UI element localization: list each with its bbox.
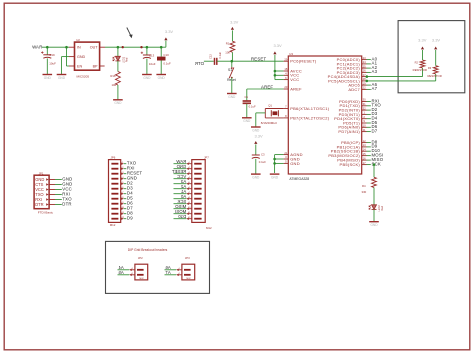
power symbol 3.3V above R1 (230, 20, 239, 42)
wire GND pin5 (275, 162, 284, 164)
svg-text:JP2: JP2 (138, 256, 143, 260)
wire RESET net to ATmega (232, 60, 284, 62)
svg-text:24: 24 (363, 60, 366, 64)
svg-text:A7: A7 (165, 270, 171, 275)
svg-text:25: 25 (363, 64, 366, 68)
voltage regulator U2 MIC5205 (69, 38, 105, 79)
wire and net label VCC at JP1 pin 3 (55, 186, 72, 191)
svg-text:31: 31 (363, 102, 366, 106)
node junction GND pin3 (273, 158, 276, 161)
wire and net label RXI at JP6 pin 2 (124, 166, 135, 171)
wire EN tie to rail (67, 47, 70, 66)
wire and net label A7 (mirrored) at JP3 pin 2 (165, 270, 177, 275)
ground below C2 (242, 118, 252, 123)
wire and net label A3 (367, 69, 378, 74)
svg-text:GND: GND (290, 161, 300, 166)
wire and net label D8 at JP6 pin 11 (124, 211, 134, 216)
svg-text:ADC7: ADC7 (348, 87, 360, 92)
svg-text:GND: GND (58, 76, 66, 80)
svg-text:RESISTOR: RESISTOR (427, 74, 441, 78)
wire and net label TXO at JP6 pin 1 (124, 161, 137, 166)
svg-text:GND: GND (77, 55, 86, 59)
svg-text:IN: IN (77, 46, 81, 50)
svg-text:21: 21 (284, 151, 287, 155)
svg-text:FTDI Basic: FTDI Basic (38, 211, 54, 215)
svg-text:18: 18 (284, 67, 287, 71)
wire and net label D9 at JP6 pin 12 (124, 216, 134, 221)
svg-text:32: 32 (363, 106, 366, 110)
svg-text:U2: U2 (76, 38, 80, 42)
ground below C10 (156, 75, 166, 80)
annotation box DIP Grid Breakout headers (106, 241, 210, 293)
capacitor C3 0.1uF decoupling (252, 152, 266, 174)
svg-text:D9: D9 (127, 216, 133, 221)
wire and net label D2 (367, 107, 378, 112)
wire and net label D5 at JP6 pin 8 (124, 196, 134, 201)
connector JP1 FTDI Basic (34, 171, 55, 214)
svg-text:GND: GND (228, 95, 236, 99)
svg-text:D10: D10 (178, 214, 186, 219)
svg-text:PB7(XTAL2TOSC2): PB7(XTAL2TOSC2) (290, 115, 330, 120)
svg-text:8/16/20MHz: 8/16/20MHz (261, 121, 278, 125)
node junction RESET (231, 60, 234, 63)
ground below C3 (251, 174, 261, 179)
wire and net label TXO at JP1 pin 5 (55, 196, 72, 201)
wire and net label D4 at JP6 pin 7 (124, 191, 134, 196)
svg-text:10uF: 10uF (149, 62, 156, 66)
wire and net label GND at JP6 pin 4 (124, 176, 137, 181)
wire AREF to ATmega (247, 88, 284, 90)
capacitor C19 10uF (41, 51, 56, 74)
switch S1 reset button (227, 61, 236, 93)
svg-text:GND: GND (271, 176, 279, 180)
svg-text:JP6: JP6 (111, 156, 116, 160)
svg-text:10: 10 (363, 124, 366, 128)
svg-text:3.3V: 3.3V (230, 20, 239, 25)
ground below ATmega GND pins (270, 174, 280, 179)
svg-text:RAW: RAW (31, 45, 42, 50)
node red dot on rail 2 (140, 46, 142, 48)
wire VCC pin4 (275, 74, 284, 76)
wire and net label D10 (mirrored) at JP7 pin 12 (174, 214, 187, 219)
wire and net label MOSI (367, 152, 384, 157)
svg-text:3.3V: 3.3V (165, 29, 174, 34)
wire and net label D5 (367, 120, 378, 125)
svg-text:GND: GND (252, 128, 260, 132)
svg-text:ATMEGA328: ATMEGA328 (289, 177, 309, 181)
svg-text:PC6(RESET): PC6(RESET) (290, 59, 317, 64)
wire and net label A2 (367, 65, 378, 70)
capacitor C10 0.1uF (157, 53, 171, 74)
wire and net label GND at JP1 pin 1 (55, 176, 72, 181)
net label RESET (251, 57, 267, 62)
LED LED1 red power indicator (113, 56, 129, 63)
wire and net label D6 at JP6 pin 9 (124, 201, 134, 206)
svg-text:Red: Red (381, 206, 384, 211)
wire and net label D7 (367, 128, 378, 133)
wire and net label A6 (367, 82, 378, 87)
wire and net label MISO (367, 157, 384, 162)
resistor R16 10k (110, 72, 120, 87)
wire C12 to RESET node (217, 60, 232, 62)
resistor R1 10k reset pullup (225, 41, 235, 61)
resistor R3 RESISTOR pullup SCL (427, 66, 441, 78)
svg-text:JP3: JP3 (185, 256, 190, 260)
wire U2 GND pin to ground (62, 57, 70, 75)
wire and net label A7 (367, 86, 378, 91)
capacitor C1 0.1uF on AREF (243, 95, 256, 118)
wire and net label D4 (367, 116, 378, 121)
svg-text:10k: 10k (111, 83, 116, 87)
wire LED2 to ground (373, 209, 375, 221)
node junction VCC (274, 74, 277, 77)
wire rail to C13 (146, 47, 148, 55)
annotation box I2C pullups (398, 21, 465, 93)
wire and net label VCC (mirrored) at JP7 pin 4 (174, 174, 187, 179)
svg-text:D7: D7 (372, 128, 378, 133)
svg-text:DTR: DTR (62, 201, 71, 206)
svg-text:0.1uF: 0.1uF (249, 105, 256, 109)
wire and net label A1 (367, 61, 378, 66)
svg-text:0.1uF: 0.1uF (218, 51, 222, 58)
wire resonator to ground (256, 113, 265, 127)
svg-text:3.3V: 3.3V (254, 133, 263, 138)
svg-text:Red: Red (126, 57, 129, 62)
svg-text:3.3V: 3.3V (418, 38, 427, 43)
svg-text:12: 12 (363, 139, 366, 143)
svg-text:10uF: 10uF (49, 62, 56, 66)
svg-text:GND: GND (114, 101, 122, 105)
svg-text:GND: GND (143, 76, 151, 80)
wire R4 to LED2 (373, 188, 375, 205)
capacitor C13 10uF (141, 52, 156, 75)
ground below R16 (113, 100, 123, 105)
svg-text:Q1: Q1 (268, 104, 272, 108)
svg-text:R2: R2 (415, 60, 419, 64)
svg-text:MIC5205: MIC5205 (77, 75, 90, 79)
ground below C13 (142, 75, 152, 80)
wire and net label TXO (367, 103, 382, 108)
connector JP3 breakout A6 A7 (176, 256, 194, 280)
wire and net label A1 (mirrored) at JP7 pin 7 (174, 189, 187, 194)
wire and net label A6 (mirrored) at JP3 pin 1 (165, 265, 177, 270)
svg-text:RESISTOR: RESISTOR (413, 68, 427, 72)
svg-text:GND: GND (243, 119, 251, 123)
ground below S1 (227, 94, 237, 99)
node junction AVCC (274, 70, 277, 73)
svg-text:JP7: JP7 (204, 156, 209, 160)
wire C19 to rail (46, 47, 48, 55)
svg-text:OUT: OUT (90, 46, 99, 50)
wire and net label D9 (367, 144, 378, 149)
annotation arrow (127, 28, 133, 39)
wire and net label D8 (367, 139, 378, 144)
wire and net label GND at JP1 pin 2 (55, 181, 72, 186)
svg-text:30: 30 (363, 98, 366, 102)
svg-text:C19: C19 (49, 53, 55, 57)
svg-text:M12: M12 (206, 226, 212, 230)
svg-text:GND: GND (44, 76, 52, 80)
resonator Q1 8/16/20MHz (261, 104, 284, 126)
svg-text:DIP Grid Breakout headers: DIP Grid Breakout headers (128, 248, 168, 252)
svg-text:DTR: DTR (195, 61, 204, 66)
svg-text:AREF: AREF (261, 85, 273, 90)
wire LED1 to R16 (117, 61, 119, 72)
wire and net label D3 at JP6 pin 6 (124, 186, 134, 191)
svg-text:RESET: RESET (251, 57, 267, 62)
svg-text:R1: R1 (226, 41, 230, 45)
wire and net label RAW (mirrored) at JP7 pin 1 (174, 159, 187, 164)
wire SCK to R4 (373, 165, 375, 178)
wire RAW input to regulator IN (42, 46, 69, 48)
svg-text:0.1uF: 0.1uF (259, 160, 266, 164)
wire SDA A4 to pullup R2 (366, 68, 423, 78)
power symbol 3.3V AVCC (273, 43, 282, 80)
wire rail to C10 (160, 47, 162, 56)
svg-text:A5: A5 (118, 270, 124, 275)
svg-text:330: 330 (362, 190, 367, 194)
svg-text:22: 22 (363, 86, 366, 90)
LED LED2 red SCK indicator (369, 205, 384, 212)
svg-text:3.3V: 3.3V (432, 38, 441, 43)
svg-text:R16: R16 (110, 74, 116, 78)
wire AREF to C2 (246, 89, 248, 100)
power symbol 3.3V above R3 (432, 38, 441, 66)
svg-text:U3: U3 (289, 52, 293, 56)
svg-text:C12: C12 (209, 54, 213, 59)
svg-text:PD7(AIN1): PD7(AIN1) (338, 129, 360, 134)
wire and net label A0 (367, 56, 378, 61)
wire GND pin3 (275, 158, 284, 160)
microcontroller U3 ATMEGA328 (284, 52, 367, 181)
svg-text:PB6(XTAL1TOSC1): PB6(XTAL1TOSC1) (290, 106, 330, 111)
wire and net label DTR at JP1 pin 6 (55, 201, 72, 206)
svg-text:20: 20 (284, 85, 287, 89)
node junction GND pin5 (273, 162, 276, 165)
svg-text:17: 17 (363, 161, 366, 165)
ground below C19 (43, 75, 53, 80)
wire VCC pin6 (275, 79, 284, 81)
svg-text:C10: C10 (163, 53, 169, 57)
wire and net label RESET (mirrored) at JP7 pin 3 (171, 169, 186, 174)
wire and net label D3 (367, 111, 378, 116)
svg-text:0.1uF: 0.1uF (163, 61, 171, 65)
svg-text:29: 29 (284, 57, 287, 61)
resistor R2 RESISTOR pullup SDA (413, 60, 427, 72)
wire and net label A3 (mirrored) at JP7 pin 5 (174, 179, 187, 184)
ground below LED2 (369, 222, 379, 227)
wire and net label RESET at JP6 pin 3 (124, 171, 143, 176)
wire and net label A2 (mirrored) at JP7 pin 6 (174, 184, 187, 189)
capacitor C12 0.1uF series reset (209, 51, 223, 64)
svg-text:C3: C3 (261, 152, 265, 156)
svg-text:PB5(SCK): PB5(SCK) (340, 162, 361, 167)
wire rail to LED1 (117, 47, 119, 56)
net label DTR (mirrored) (195, 61, 204, 66)
net label AREF (261, 85, 273, 90)
node junction SCK (373, 163, 376, 166)
node junction EN tie (65, 46, 68, 49)
svg-text:14: 14 (363, 147, 366, 151)
svg-text:GND: GND (252, 176, 260, 180)
node junction RAW/C19 (46, 46, 49, 49)
wire and net label SCK (367, 161, 381, 166)
power symbol 3.3V above C3 (254, 133, 263, 155)
wire and net label MOSI (mirrored) at JP7 pin 11 (174, 209, 187, 214)
node red dot on rail (122, 46, 124, 48)
svg-text:VCC: VCC (290, 77, 299, 82)
svg-text:15: 15 (363, 152, 366, 156)
svg-text:EN: EN (77, 64, 82, 68)
wire and net label MISO (mirrored) at JP7 pin 10 (174, 204, 187, 209)
net label RAW (mirrored) (31, 45, 42, 50)
connector JP6 M12 digital side (109, 156, 125, 228)
node junction C13 branch (146, 46, 149, 49)
svg-text:3.3V: 3.3V (273, 43, 282, 48)
svg-text:C1: C1 (245, 95, 249, 99)
svg-text:13: 13 (363, 143, 366, 147)
svg-text:GND: GND (370, 223, 378, 227)
svg-text:16: 16 (363, 156, 366, 160)
svg-text:23: 23 (363, 56, 366, 60)
wire and net label RXI at JP1 pin 4 (55, 191, 70, 196)
ground below U2 GND pin (57, 75, 67, 80)
wire and net label SCK (mirrored) at JP7 pin 9 (174, 199, 187, 204)
wire and net label D6 (367, 124, 378, 129)
svg-text:10k: 10k (225, 51, 230, 55)
svg-text:C13: C13 (149, 53, 155, 57)
wire SCL A5 to pullup R3 (366, 74, 436, 82)
power symbol 3.3V at rail end (164, 29, 173, 47)
wire and net label D10 (367, 148, 381, 153)
wire and net label D2 at JP6 pin 5 (124, 181, 134, 186)
svg-text:GND: GND (158, 76, 166, 80)
resistor R4 330 (362, 177, 377, 194)
svg-text:BP: BP (93, 64, 98, 68)
wire and net label A5 (mirrored) at JP2 pin 2 (118, 270, 130, 275)
svg-text:A3: A3 (372, 69, 378, 74)
svg-text:DTR: DTR (35, 202, 43, 207)
wire 3.3V output rail (105, 46, 166, 48)
ground below resonator (251, 127, 261, 132)
svg-text:AREF: AREF (290, 86, 302, 91)
connector JP2 breakout A4 A5 (129, 256, 147, 280)
node junction C10 branch (160, 46, 163, 49)
svg-text:R3: R3 (428, 66, 432, 70)
wire and net label A0 (mirrored) at JP7 pin 8 (174, 194, 187, 199)
svg-text:JP1: JP1 (39, 171, 44, 175)
svg-text:19: 19 (363, 81, 366, 85)
wire and net label A4 (mirrored) at JP2 pin 1 (118, 265, 130, 270)
connector JP7 M12 power/analog side (186, 156, 212, 230)
wire and net label GND (mirrored) at JP7 pin 2 (174, 164, 187, 169)
svg-text:A7: A7 (372, 86, 378, 91)
power symbol 3.3V above R2 (418, 38, 427, 60)
wire R16 to ground (117, 85, 119, 100)
wire AGND (275, 155, 284, 173)
svg-text:M12: M12 (110, 223, 116, 227)
wire DTR to C12 (204, 60, 214, 62)
svg-text:S1: S1 (228, 68, 232, 72)
svg-text:26: 26 (363, 69, 366, 73)
wire and net label D7 at JP6 pin 10 (124, 206, 134, 211)
wire and net label RXI (367, 98, 380, 103)
node junction LED branch (117, 46, 120, 49)
wire AVCC (275, 70, 284, 72)
svg-text:R4: R4 (362, 184, 366, 188)
